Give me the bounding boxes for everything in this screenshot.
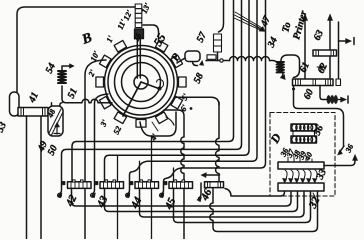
svg-text:43: 43 (94, 194, 110, 210)
svg-text:6': 6' (179, 103, 190, 113)
svg-text:44: 44 (128, 195, 144, 211)
svg-text:Printer: Printer (291, 9, 309, 40)
svg-text:62: 62 (316, 62, 330, 76)
svg-text:60: 60 (302, 88, 316, 102)
svg-text:34: 34 (265, 36, 280, 51)
svg-text:1': 1' (105, 34, 116, 44)
svg-text:3': 3' (98, 118, 110, 129)
svg-text:13': 13' (140, 1, 153, 15)
svg-text:36: 36 (343, 143, 355, 155)
svg-text:52: 52 (112, 125, 124, 136)
svg-text:51: 51 (66, 87, 80, 101)
svg-text:53: 53 (0, 121, 9, 135)
svg-text:41: 41 (26, 91, 41, 106)
svg-text:57: 57 (195, 30, 210, 45)
svg-text:54: 54 (44, 62, 58, 76)
svg-text:32: 32 (306, 195, 322, 211)
svg-text:45: 45 (162, 196, 178, 212)
svg-text:58: 58 (192, 72, 206, 86)
svg-text:12': 12' (122, 8, 135, 22)
svg-text:To: To (280, 21, 293, 34)
svg-text:63: 63 (312, 29, 326, 43)
svg-text:B: B (79, 30, 94, 48)
